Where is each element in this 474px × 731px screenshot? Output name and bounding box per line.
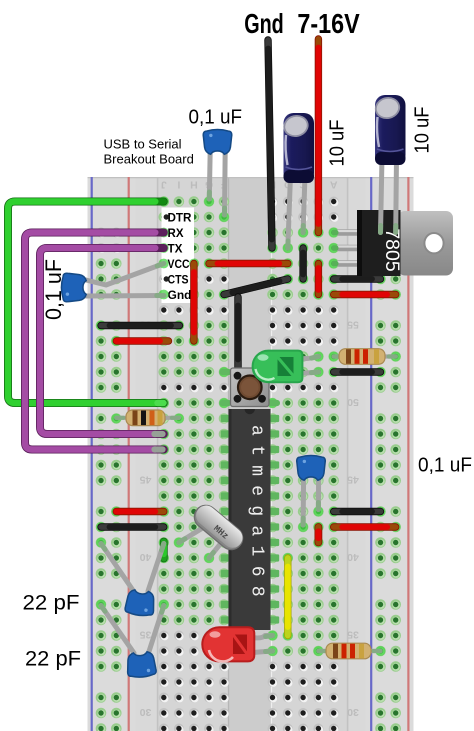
svg-text:50: 50 <box>347 396 359 408</box>
svg-text:40: 40 <box>140 551 152 563</box>
svg-text:J: J <box>161 179 167 191</box>
svg-text:22 pF: 22 pF <box>25 647 81 671</box>
svg-text:I: I <box>177 179 180 191</box>
svg-text:USB to Serial: USB to Serial <box>104 137 182 152</box>
svg-text:45: 45 <box>140 474 152 486</box>
svg-text:35: 35 <box>347 629 359 641</box>
svg-text:22 pF: 22 pF <box>23 591 80 615</box>
svg-text:Breakout Board: Breakout Board <box>104 152 194 167</box>
svg-text:TX: TX <box>168 241 183 255</box>
svg-text:10 uF: 10 uF <box>411 107 434 154</box>
svg-text:7805: 7805 <box>381 228 403 272</box>
svg-text:35: 35 <box>140 629 152 641</box>
svg-text:55: 55 <box>347 319 359 331</box>
svg-text:30: 30 <box>347 706 359 718</box>
svg-text:Gnd: Gnd <box>168 288 192 302</box>
svg-text:0,1 uF: 0,1 uF <box>41 259 66 320</box>
svg-text:Gnd: Gnd <box>244 8 284 39</box>
svg-text:H: H <box>190 179 198 191</box>
svg-text:A: A <box>329 179 337 191</box>
svg-text:40: 40 <box>347 551 359 563</box>
svg-text:7-16V: 7-16V <box>297 8 360 39</box>
svg-text:10 uF: 10 uF <box>326 120 349 167</box>
svg-text:atmega168: atmega168 <box>247 425 267 606</box>
svg-text:VCC: VCC <box>168 257 190 271</box>
svg-text:RX: RX <box>168 226 184 240</box>
svg-text:0,1 uF: 0,1 uF <box>418 454 472 477</box>
svg-text:0,1 uF: 0,1 uF <box>189 106 243 129</box>
svg-text:CTS: CTS <box>168 272 189 286</box>
svg-text:45: 45 <box>347 474 359 486</box>
svg-text:30: 30 <box>140 706 152 718</box>
svg-text:DTR: DTR <box>168 210 192 224</box>
